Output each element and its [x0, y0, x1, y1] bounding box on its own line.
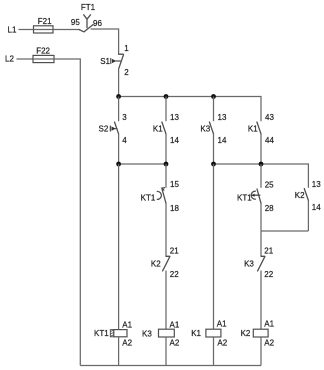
svg-text:25: 25	[265, 180, 274, 189]
relay coil K2	[241, 320, 275, 348]
svg-text:L2: L2	[5, 54, 14, 63]
timer relay coil KT1	[94, 320, 133, 347]
bottom bus horizontal	[80, 365, 261, 367]
wire K3 contact to bus 3	[213, 134, 215, 164]
svg-text:FT1: FT1	[81, 3, 96, 12]
contact K2 (NO 13-14, right branch)	[295, 180, 321, 212]
svg-text:A1: A1	[170, 320, 180, 329]
timer contact KT1 (15-18, on-delay)	[141, 180, 180, 213]
wire K2 coil to bottom bus	[260, 337, 262, 366]
pushbutton S2 (NO contact 3-4)	[99, 113, 128, 145]
svg-text:28: 28	[265, 204, 274, 213]
wire S2 to bus 2	[118, 134, 120, 164]
svg-text:14: 14	[170, 136, 179, 145]
svg-text:KT1: KT1	[94, 329, 109, 338]
wire bus2 to KT1 contact	[165, 164, 167, 188]
svg-text:43: 43	[265, 113, 274, 122]
node L1	[8, 26, 17, 35]
svg-text:L1: L1	[8, 26, 17, 35]
wire KT1 contact to K2 NC contact	[165, 203, 167, 256]
svg-text:21: 21	[264, 247, 273, 256]
junction dot bus1 col B	[164, 94, 169, 99]
svg-text:F22: F22	[36, 47, 50, 56]
fuse F21	[34, 17, 54, 33]
svg-text:21: 21	[170, 247, 179, 256]
svg-text:96: 96	[93, 19, 102, 28]
wire K1 43-44 contact to bus 3	[260, 134, 262, 164]
wire bus1 to K3 contact	[213, 97, 215, 122]
wire K3 coil to bottom bus	[165, 337, 167, 366]
svg-text:K2: K2	[295, 191, 305, 200]
svg-text:K3: K3	[244, 260, 254, 269]
svg-text:K1: K1	[153, 124, 163, 133]
wire F21 to FT1	[53, 29, 79, 31]
svg-text:A2: A2	[170, 338, 180, 347]
svg-text:13: 13	[170, 113, 179, 122]
svg-text:1: 1	[124, 44, 129, 53]
wire bus3 to K1 coil (column C)	[213, 164, 215, 329]
junction dot bus2 col A	[116, 162, 121, 167]
bus 3 horizontal	[214, 164, 309, 188]
svg-text:15: 15	[170, 180, 179, 189]
switch S1 (NC contact 1-2)	[100, 44, 129, 77]
svg-text:KT1: KT1	[237, 194, 252, 203]
svg-text:2: 2	[124, 68, 129, 77]
relay coil K3	[142, 320, 180, 347]
contact K1 (NO 13-14)	[153, 113, 180, 145]
svg-text:22: 22	[170, 270, 179, 279]
thermal overload contact FT1 (95-96)	[71, 3, 103, 32]
connector wire between column D and K2 branch	[261, 230, 308, 232]
svg-text:95: 95	[71, 18, 80, 27]
timer contact KT1 (25-28, delayed)	[237, 180, 274, 213]
wire F22 to bottom bus (left rail)	[54, 59, 80, 366]
junction dot bus1 col A	[116, 94, 121, 99]
wire K3 NC to K2 coil	[260, 271, 262, 330]
svg-text:18: 18	[170, 204, 179, 213]
svg-text:A1: A1	[122, 320, 132, 329]
wire L1 to F21	[19, 29, 34, 31]
svg-text:K3: K3	[200, 124, 210, 133]
svg-text:KT1: KT1	[141, 194, 156, 203]
wire bus3 to KT1 25-28 contact	[260, 164, 262, 188]
svg-text:A2: A2	[122, 338, 132, 347]
wire KT1 coil to buses	[118, 164, 120, 366]
relay coil K1	[191, 320, 228, 348]
svg-text:F21: F21	[38, 17, 52, 26]
svg-text:14: 14	[218, 136, 227, 145]
bus 2 horizontal	[119, 163, 166, 165]
wire K1 contact to bus 2	[165, 134, 167, 164]
wire bus1 to K1 contact	[165, 97, 167, 122]
svg-text:S2: S2	[99, 124, 109, 133]
junction dot bus3 col D	[259, 162, 264, 167]
wire bus1 to S2	[118, 97, 120, 122]
wire K1 coil to bottom bus	[213, 337, 215, 366]
svg-text:A1: A1	[217, 320, 227, 329]
svg-text:K3: K3	[142, 329, 152, 338]
wire connector to K3 NC contact	[260, 231, 262, 256]
svg-text:13: 13	[218, 113, 227, 122]
svg-text:S1: S1	[100, 57, 110, 66]
junction dot bus1 col C	[211, 94, 216, 99]
svg-text:K2: K2	[151, 260, 161, 269]
junction dot bus2 col B	[164, 162, 169, 167]
svg-text:K1: K1	[191, 329, 201, 338]
svg-text:4: 4	[122, 136, 127, 145]
contact K1 (NO 43-44)	[248, 113, 275, 145]
contact K2 (NC 21-22)	[151, 247, 179, 279]
junction dot bus3 col C	[211, 162, 216, 167]
svg-text:A1: A1	[264, 320, 274, 329]
svg-text:44: 44	[265, 136, 274, 145]
contact K3 (NO 13-14)	[200, 113, 227, 145]
svg-text:A2: A2	[217, 339, 227, 348]
wire S1 to bus 1	[118, 68, 120, 96]
svg-text:22: 22	[264, 270, 273, 279]
contact K3 (NC 21-22)	[244, 247, 274, 279]
svg-text:K2: K2	[241, 329, 251, 338]
node L2	[5, 54, 14, 63]
wire K2 NC to K3 coil	[165, 271, 167, 330]
svg-text:13: 13	[312, 180, 321, 189]
wire K2 13-14 down to connector	[307, 200, 309, 231]
svg-text:3: 3	[122, 113, 127, 122]
svg-text:14: 14	[312, 203, 321, 212]
svg-text:A2: A2	[264, 339, 274, 348]
wire KT1 25-28 to connector	[260, 203, 262, 231]
bus 1 horizontal	[119, 97, 261, 122]
svg-text:K1: K1	[248, 124, 258, 133]
fuse F22	[33, 47, 54, 63]
wire L2 to F22	[17, 58, 34, 60]
wire 96 to S1 (corner at top of column A)	[91, 29, 119, 54]
